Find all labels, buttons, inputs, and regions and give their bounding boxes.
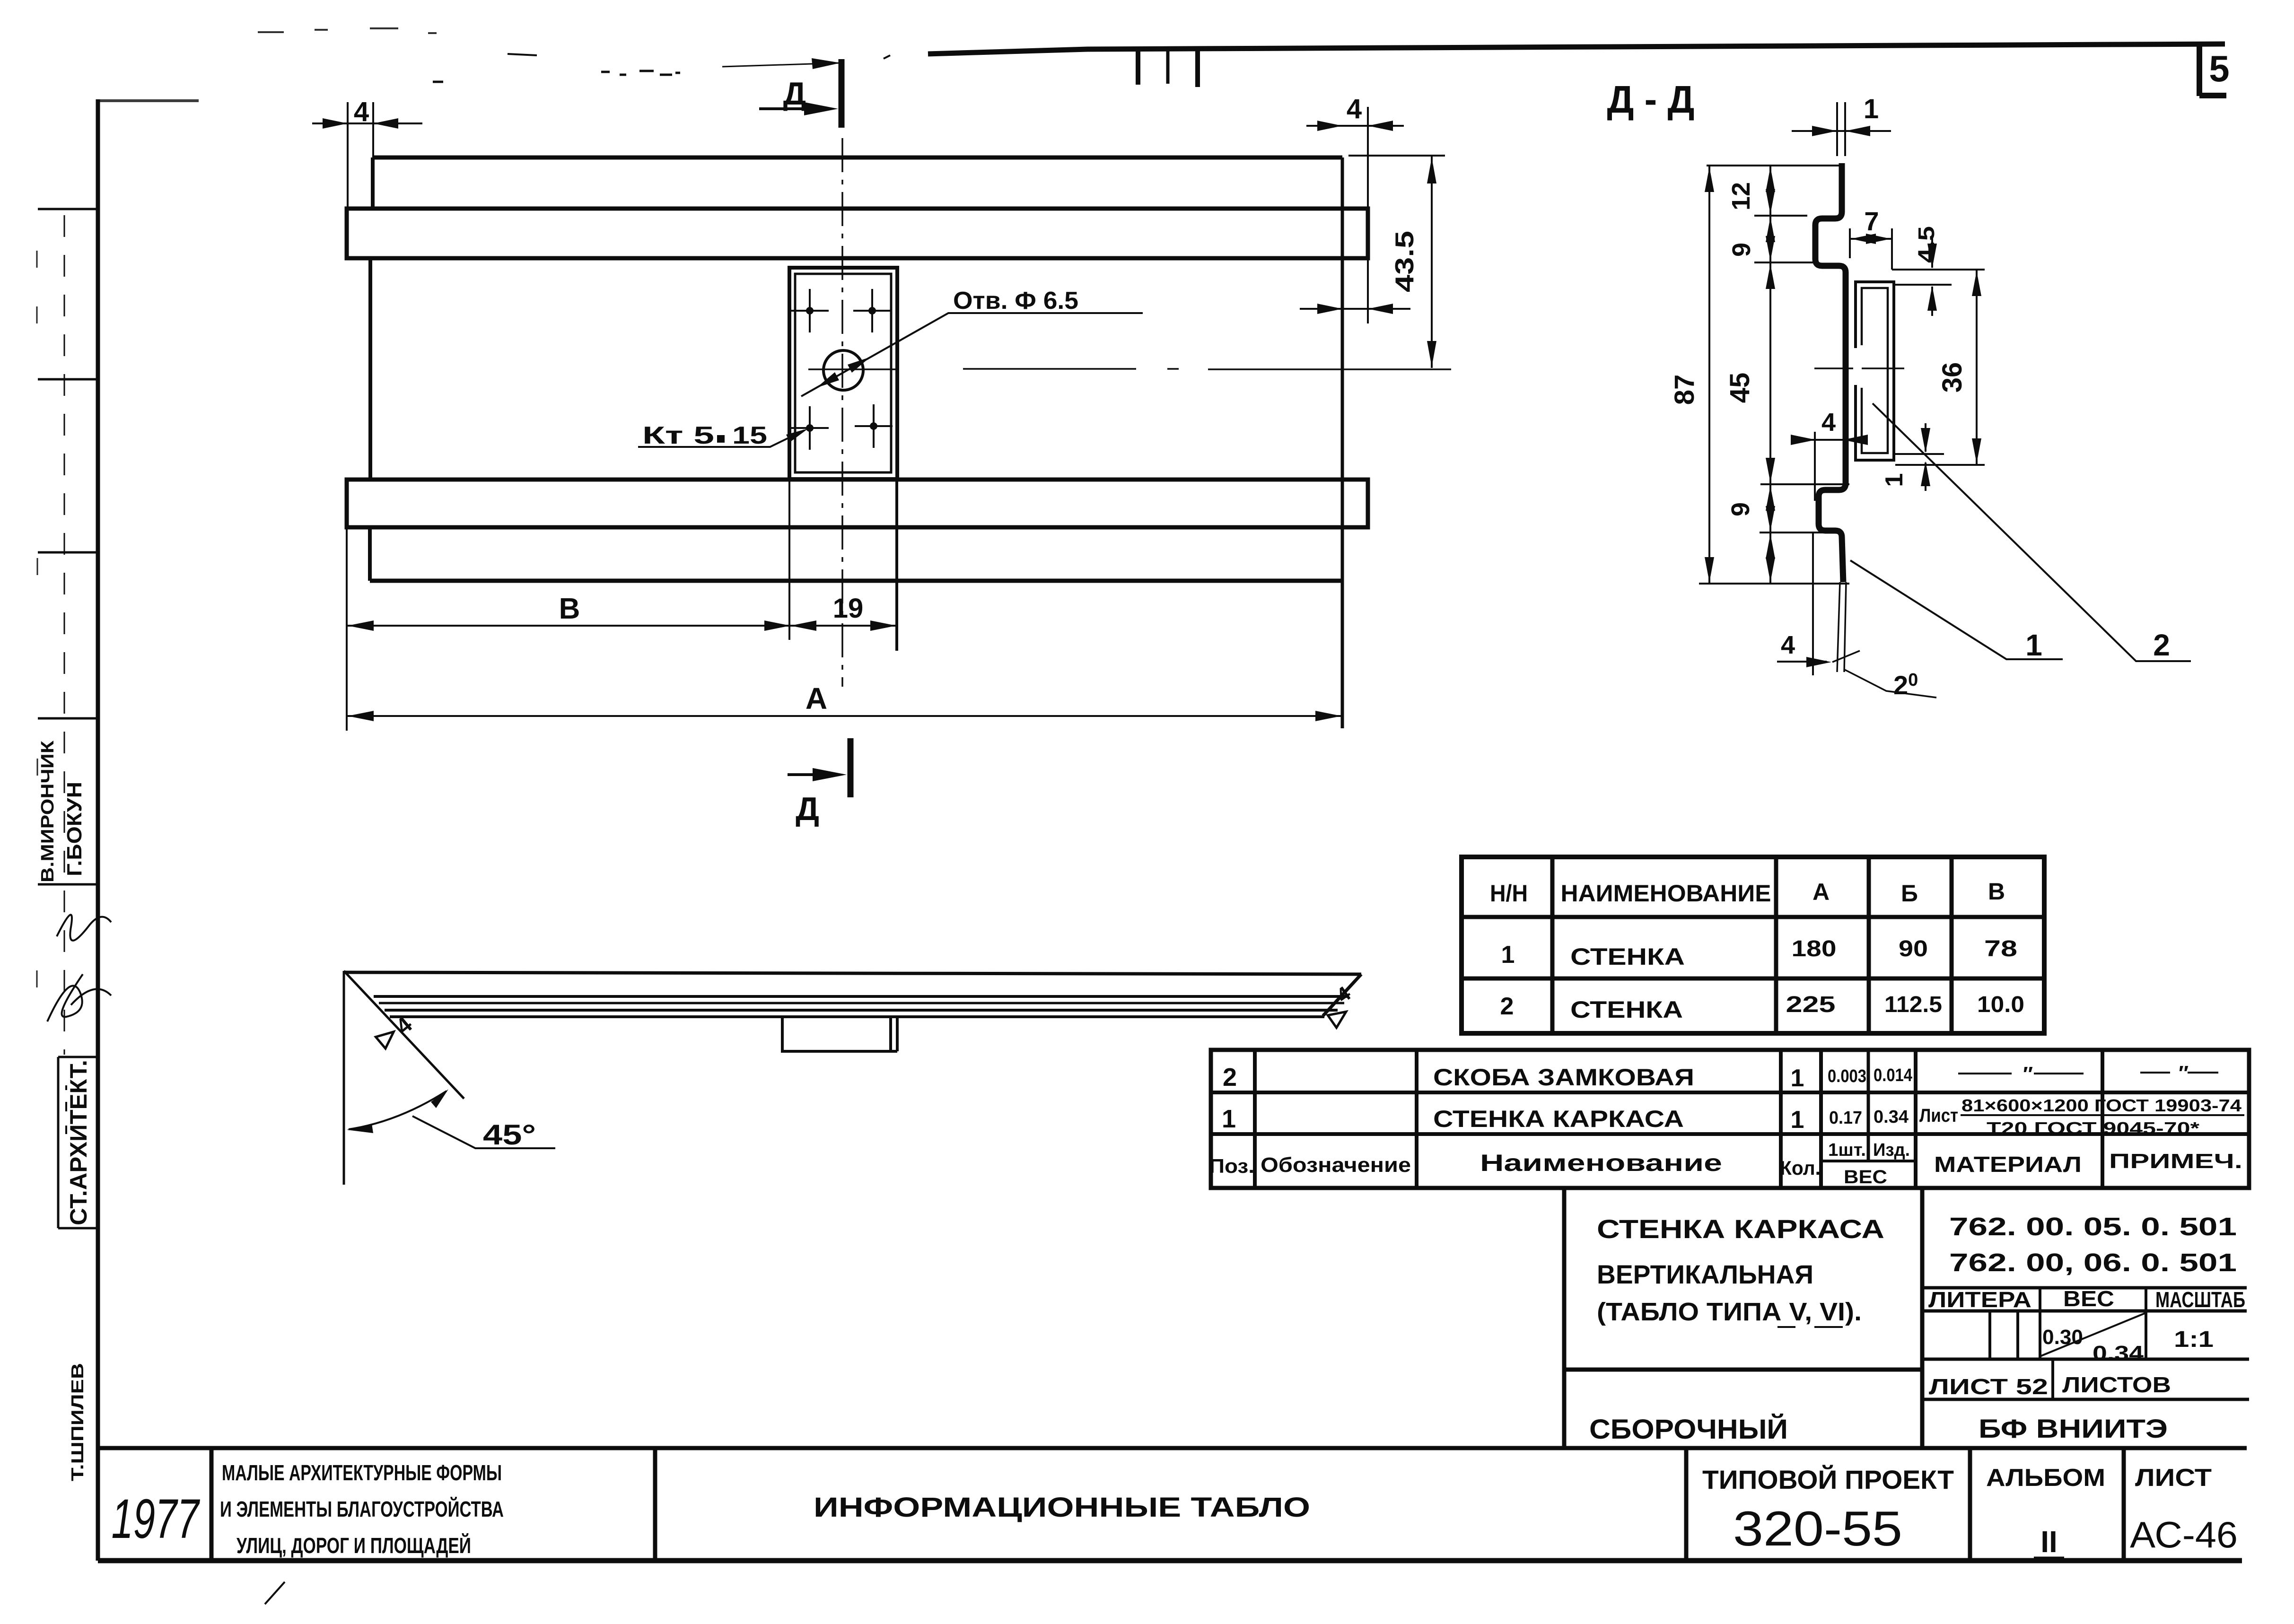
svg-text:УЛИЦ, ДОРОГ И ПЛОЩАДЕЙ: УЛИЦ, ДОРОГ И ПЛОЩАДЕЙ [236, 1533, 471, 1558]
dim 1 bracket arrows [1925, 423, 1926, 491]
svg-text:ВЕРТИКАЛЬНАЯ: ВЕРТИКАЛЬНАЯ [1597, 1259, 1813, 1289]
dim A dimension line [347, 715, 1342, 717]
dim 36 line [1976, 270, 1978, 465]
dim 4 bottom-right dimension line [1300, 308, 1410, 310]
svg-text:МАТЕРИАЛ: МАТЕРИАЛ [1934, 1152, 2082, 1177]
faint top-left specks [258, 28, 437, 33]
margin stamp box СТ.АРХИТЕКТ [58, 1057, 97, 1228]
spec material fraction line [1961, 1114, 2244, 1116]
parameter table row lines [1462, 917, 2044, 978]
svg-text:45: 45 [1725, 373, 1755, 403]
tick y1126 [1760, 532, 1825, 533]
Kt label [642, 422, 767, 449]
dim 4 top-right extension line [1367, 107, 1369, 209]
svg-text:1:1: 1:1 [2174, 1327, 2214, 1352]
weld mark triangle left [374, 1012, 418, 1054]
svg-text:1: 1 [1881, 473, 1908, 487]
side view 45 chamfer diagonal [344, 971, 464, 1099]
svg-text:Лист: Лист [1919, 1105, 1958, 1126]
section cut mark top [839, 59, 845, 128]
parameter table verticals [1552, 857, 1952, 1033]
margin tick y1519 [38, 717, 97, 720]
bottom stamp top line [98, 1446, 2247, 1450]
svg-text:90: 90 [1899, 936, 1928, 961]
margin signature squiggle 2 [47, 974, 111, 1022]
svg-text:9: 9 [1727, 243, 1756, 257]
sheet number corner bracket [2199, 45, 2226, 96]
callout 1 leader [1850, 560, 2063, 659]
svg-text:ВЕС: ВЕС [1844, 1167, 1887, 1187]
svg-text:В: В [559, 593, 580, 625]
svg-text:СТ.АРХИТЕКТ.: СТ.АРХИТЕКТ. [65, 1060, 92, 1225]
svg-text:Д: Д [783, 76, 806, 112]
side view stacked line 3 [385, 1009, 1338, 1012]
svg-text:0.30: 0.30 [2042, 1326, 2083, 1349]
dim 7 extension lines [1850, 228, 1892, 270]
svg-text:МАЛЫЕ АРХИТЕКТУРНЫЕ ФОРМЫ: МАЛЫЕ АРХИТЕКТУРНЫЕ ФОРМЫ [222, 1460, 502, 1485]
svg-text:А: А [806, 681, 827, 716]
title block right rows [1922, 1288, 2249, 1399]
dim 4 bottom extension [1812, 533, 1814, 675]
roman numeral underlines [1777, 1326, 1843, 1328]
svg-text:1: 1 [2025, 628, 2042, 662]
margin tick y442 [38, 208, 97, 210]
bottom stamp verticals [211, 1448, 2124, 1561]
dim 4 top-right dimension line [1306, 125, 1404, 127]
2 degrees leader [1845, 670, 1936, 698]
svg-text:(ТАБЛО ТИПА V, VI).: (ТАБЛО ТИПА V, VI). [1597, 1298, 1862, 1326]
svg-text:СБОРОЧНЫЙ: СБОРОЧНЫЙ [1589, 1414, 1788, 1445]
bottom tilt 2deg lines [1837, 582, 1846, 672]
svg-text:Д: Д [796, 790, 819, 827]
svg-text:1: 1 [1791, 1065, 1804, 1092]
svg-text:1шт.: 1шт. [1828, 1140, 1866, 1160]
svg-text:0.014: 0.014 [1874, 1065, 1912, 1085]
plate right edge / extension line [1341, 157, 1344, 728]
ink drip 1 [1136, 49, 1140, 85]
stray mark dash b [508, 54, 537, 55]
plate left edge lower [368, 529, 372, 581]
tick y456 [1754, 215, 1807, 217]
svg-text:36: 36 [1937, 362, 1968, 393]
svg-text:ЛИСТ: ЛИСТ [2135, 1464, 2212, 1492]
dim 43.5 top tick [1348, 155, 1445, 157]
section cut arrow top [759, 107, 823, 110]
plate left edge middle [368, 258, 372, 480]
dim 4 step extension [1814, 432, 1816, 501]
dim 1 dimension line [1792, 130, 1891, 132]
svg-text:Кт 5: Кт 5 [642, 422, 714, 449]
lock bracket inner rect [795, 274, 891, 472]
svg-text:2: 2 [1500, 993, 1514, 1020]
margin tick y1870 [38, 883, 97, 886]
svg-text:4: 4 [1347, 94, 1362, 124]
spec table vertical вес split [1867, 1050, 1870, 1161]
svg-text:Д - Д: Д - Д [1607, 78, 1695, 121]
bracket section inner [1862, 288, 1888, 453]
svg-text:Г.БОКУН: Г.БОКУН [63, 782, 86, 876]
section centerline [1814, 367, 1904, 369]
svg-text:ИНФОРМАЦИОННЫЕ ТАБЛО: ИНФОРМАЦИОННЫЕ ТАБЛО [814, 1492, 1310, 1523]
svg-text:МАСШТАБ: МАСШТАБ [2155, 1287, 2245, 1312]
title block middle vertical [1920, 1188, 1925, 1448]
svg-text:Наименование: Наименование [1480, 1150, 1722, 1176]
dim 4 top-left extension lines [348, 102, 373, 209]
svg-text:180: 180 [1792, 936, 1837, 961]
svg-text:ЛИСТ 52: ЛИСТ 52 [1929, 1374, 2048, 1399]
svg-text:СТЕНКА КАРКАСА: СТЕНКА КАРКАСА [1597, 1214, 1884, 1244]
bracket extension line left [788, 479, 790, 640]
plate left edge upper [371, 157, 375, 209]
dim 4.5 arrows [1931, 236, 1933, 316]
svg-text:2: 2 [1223, 1063, 1237, 1091]
dim 4 step dimension line [1797, 439, 1850, 441]
svg-text:СКОБА ЗАМКОВАЯ: СКОБА ЗАМКОВАЯ [1433, 1064, 1694, 1091]
вес diagonal [2040, 1313, 2146, 1356]
svg-text:ТИПОВОЙ ПРОЕКТ: ТИПОВОЙ ПРОЕКТ [1702, 1465, 1954, 1494]
svg-text:1: 1 [1791, 1106, 1804, 1134]
spec row 1 texts [1222, 1096, 2241, 1138]
tick y570 (4.5/36 top) [1892, 269, 1985, 271]
svg-text:1: 1 [1222, 1105, 1236, 1133]
dim 1 bracket wall tick [1895, 453, 1944, 455]
spec header texts [1209, 1140, 2242, 1187]
dim 19 dimension line [790, 625, 896, 627]
svg-text:225: 225 [1786, 992, 1836, 1017]
dim 4 bottom dimension line [1777, 661, 1827, 663]
svg-text:СТЕНКА КАРКАСА: СТЕНКА КАРКАСА [1433, 1106, 1684, 1132]
spec table frame [1211, 1050, 2249, 1188]
svg-text:12: 12 [1727, 182, 1755, 210]
left frame border [96, 99, 100, 1561]
parameter table row 1 [1501, 936, 2017, 970]
dim 36 bottom tick [1895, 464, 1985, 466]
tick y1024 [1760, 483, 1849, 485]
svg-text:ПРИМЕЧ.: ПРИМЕЧ. [2109, 1150, 2242, 1173]
lock bracket outer rect [789, 268, 897, 479]
svg-text:II: II [2040, 1525, 2058, 1559]
section cut arrow bottom [788, 773, 832, 776]
plate (стенка) top edge [373, 156, 1342, 160]
side view left vertical line [343, 971, 345, 1185]
margin small dashes [65, 1085, 67, 1134]
45 degree leader [412, 1116, 555, 1148]
svg-text:Поз.: Поз. [1209, 1155, 1254, 1177]
top flange strip [347, 209, 1368, 258]
svg-text:В.МИРОНЧИК: В.МИРОНЧИК [38, 740, 58, 882]
leader arrowheads [848, 357, 870, 373]
parameter table frame [1462, 857, 2044, 1033]
dim 4 bottom approach line [1832, 651, 1860, 662]
hole circle Отв Ф6.5 [823, 350, 863, 390]
callout 2 leader [1873, 403, 2191, 661]
svg-text:БФ ВНИИТЭ: БФ ВНИИТЭ [1979, 1414, 2168, 1443]
stray mark dash a [433, 81, 443, 83]
Kt leader arrowhead [786, 428, 808, 442]
svg-text:ВЕС: ВЕС [2063, 1286, 2114, 1311]
svg-text:2: 2 [2153, 628, 2170, 662]
dim B extension lines [346, 527, 348, 731]
leader line hole callout [801, 313, 1143, 396]
svg-text:НАИМЕНОВАНИЕ: НАИМЕНОВАНИЕ [1561, 880, 1771, 907]
svg-text:″: ″ [2179, 1062, 2189, 1085]
dim 7 dimension line [1850, 238, 1892, 240]
svg-text:1977: 1977 [112, 1488, 201, 1550]
svg-text:СТЕНКА: СТЕНКА [1570, 943, 1685, 970]
svg-text:″: ″ [2023, 1063, 2033, 1086]
ink drip 3 [1195, 49, 1200, 87]
dim B dimension line [347, 625, 790, 627]
svg-text:СТЕНКА: СТЕНКА [1570, 996, 1683, 1023]
svg-text:ЛИСТОВ: ЛИСТОВ [2062, 1372, 2171, 1397]
svg-text:Кол.: Кол. [1780, 1157, 1821, 1179]
svg-text:Н/Н: Н/Н [1490, 880, 1528, 907]
svg-text:ЛИТЕРА: ЛИТЕРА [1928, 1287, 2031, 1312]
side view right tip diagonal [1323, 974, 1361, 1016]
svg-text:10.0: 10.0 [1977, 992, 2024, 1017]
spec table row lines [1211, 1092, 2249, 1134]
side view stacked line 1 [374, 995, 1349, 998]
section sheet profile [1815, 163, 1846, 582]
svg-text:Т20 ГОСТ 9045-70*: Т20 ГОСТ 9045-70* [1987, 1118, 2199, 1138]
margin signature squiggle 1 [57, 915, 111, 941]
top border remnant at left [98, 99, 199, 102]
plate bottom edge [370, 579, 1342, 583]
dim 87 line [1708, 166, 1710, 584]
svg-text:Б: Б [1901, 880, 1918, 907]
svg-text:АС-46: АС-46 [2130, 1514, 2238, 1555]
chain dimension line [1769, 166, 1771, 584]
svg-text:4: 4 [1821, 408, 1836, 437]
svg-text:И ЭЛЕМЕНТЫ БЛАГОУСТРОЙСТВА: И ЭЛЕМЕНТЫ БЛАГОУСТРОЙСТВА [220, 1497, 504, 1521]
svg-text:Обозначение: Обозначение [1261, 1153, 1411, 1177]
svg-text:45°: 45° [483, 1119, 536, 1151]
svg-text:762. 00, 06. 0. 501: 762. 00, 06. 0. 501 [1949, 1249, 2237, 1277]
svg-text:1: 1 [1864, 94, 1879, 124]
bracket extension line right [896, 479, 898, 651]
svg-text:0.34: 0.34 [1874, 1107, 1909, 1127]
stray slash bottom left [265, 1582, 285, 1604]
parameter table row 2 [1500, 992, 2024, 1023]
sheet top border line [928, 44, 2225, 54]
dim 4 top-left dimension line [312, 122, 422, 124]
side view stacked line 2 [379, 1002, 1344, 1004]
svg-text:А: А [1812, 879, 1830, 905]
dim 19 extension line [895, 479, 897, 651]
margin secondary dashes [37, 251, 37, 987]
spec table verticals [1255, 1050, 2102, 1188]
rivet cross Kt 4 [855, 404, 893, 448]
dim 4 bottom-right extension [1367, 258, 1369, 323]
tick bottom y1234 [1699, 583, 1849, 585]
tick top y350 [1707, 165, 1842, 166]
bottom flange strip [347, 480, 1368, 527]
section cut mark bottom [848, 738, 854, 797]
tick y555 [1754, 262, 1815, 263]
II underline [2034, 1557, 2064, 1559]
bracket in side view [782, 1018, 897, 1051]
bracket section outer [1856, 282, 1894, 460]
title block name/type divider [1564, 1368, 1922, 1372]
svg-text:Т.ШПИЛЕВ: Т.ШПИЛЕВ [68, 1363, 87, 1481]
svg-text:Изд.: Изд. [1873, 1140, 1910, 1160]
bottom stamp bottom line / frame bottom [98, 1558, 2242, 1563]
svg-text:43.5: 43.5 [1390, 231, 1419, 292]
svg-text:5: 5 [2209, 48, 2229, 89]
rivet cross Kt 2 [853, 289, 891, 332]
svg-text:9: 9 [1726, 502, 1755, 516]
svg-text:1: 1 [1501, 941, 1515, 969]
svg-text:4.5: 4.5 [1914, 226, 1939, 263]
svg-text:АЛЬБОМ: АЛЬБОМ [1986, 1464, 2105, 1492]
svg-text:В: В [1988, 878, 2005, 905]
svg-text:4: 4 [354, 96, 369, 127]
spec table вес sub line [1821, 1160, 1916, 1162]
45 degree arc [349, 1091, 447, 1129]
margin tick y1168 [38, 551, 97, 554]
dim 43.5 line [1431, 157, 1433, 368]
side view top edge [344, 972, 1361, 974]
svg-text:Отв. Ф 6.5: Отв. Ф 6.5 [953, 287, 1078, 314]
margin tick y802 [38, 378, 97, 381]
parameter table header texts [1490, 878, 2005, 907]
title block right verticals [1990, 1288, 2146, 1399]
title block left vertical [1562, 1188, 1567, 1448]
svg-text:0.17: 0.17 [1829, 1108, 1862, 1128]
margin dashed column line [64, 215, 65, 1055]
leader line Kt callout [638, 430, 804, 447]
svg-text:15: 15 [732, 422, 767, 449]
side view stacked line 4 [390, 1015, 1324, 1018]
rivet cross Kt 1 [791, 289, 829, 332]
spec row 2 texts [1223, 1063, 1912, 1092]
svg-text:112.5: 112.5 [1884, 992, 1942, 1017]
stray thin arrow line top [722, 63, 841, 67]
horizontal centerline segments [808, 369, 1451, 369]
svg-text:87: 87 [1669, 375, 1700, 405]
svg-text:19: 19 [833, 593, 864, 624]
svg-text:7: 7 [1864, 206, 1879, 236]
svg-text:320-55: 320-55 [1733, 1502, 1902, 1556]
weld mark triangle right tip [1317, 982, 1362, 1028]
stray mark near Д [884, 55, 890, 59]
svg-text:81×600×1200 ГОСТ 19903-74: 81×600×1200 ГОСТ 19903-74 [1961, 1096, 2241, 1115]
svg-text:0.003: 0.003 [1828, 1066, 1866, 1086]
spec row 2 ditto marks [1958, 1073, 2218, 1074]
svg-text:0.34: 0.34 [2093, 1342, 2144, 1365]
tick y600 (bracket top ext) [1894, 284, 1952, 286]
svg-text:762. 00. 05. 0. 501: 762. 00. 05. 0. 501 [1949, 1213, 2237, 1241]
svg-text:78: 78 [1984, 936, 2017, 961]
stray specks [601, 71, 680, 75]
ink drip 2 [1166, 50, 1170, 84]
rivet cross Kt 3 [791, 406, 829, 450]
svg-text:4: 4 [1781, 631, 1795, 659]
dim 1 sheet thickness ext lines [1837, 102, 1845, 156]
vertical centerline [841, 138, 843, 687]
